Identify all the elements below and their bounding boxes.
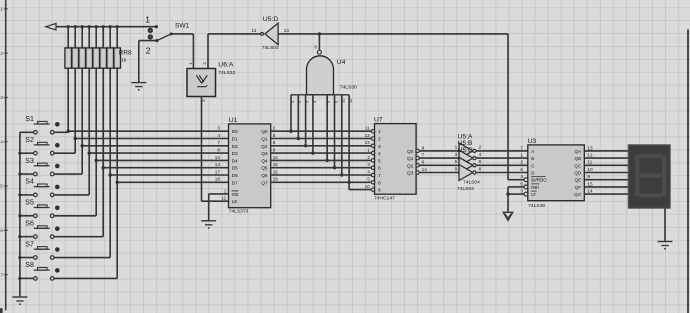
inverter U5 gate 4 [459,165,473,181]
input bubble LT U3 [524,192,528,196]
top bus wire [53,26,157,28]
node tap 3 [81,144,84,147]
node U4 output junction [318,32,321,35]
svg-text:12: 12 [273,155,279,160]
node rail junction S3 [18,172,21,175]
wire bus vertical 6 [102,27,104,237]
svg-text:1: 1 [367,148,370,153]
svg-text:9: 9 [273,148,276,153]
svg-text:U4: U4 [337,59,346,66]
switch S1 [20,121,68,134]
wire D5 to U1 [103,167,228,169]
overline BI/RBO [531,176,545,178]
svg-text:4: 4 [520,174,523,179]
svg-text:S6: S6 [25,220,34,227]
svg-text:4: 4 [479,152,482,157]
wire U1 Q5 to U7 [271,167,372,169]
wire U1 Q2 to U7 [271,145,372,147]
wire D1 to U1 [75,138,228,140]
svg-text:QA: QA [575,149,583,154]
svg-text:QC: QC [574,163,582,168]
wire bus vertical 1 [67,27,69,133]
svg-text:6: 6 [0,228,3,234]
wire D0 to U1 [68,130,228,132]
svg-text:12: 12 [348,98,353,103]
svg-text:19: 19 [273,177,279,182]
node tap 4 [88,151,91,154]
svg-text:5: 5 [455,159,458,164]
svg-text:18: 18 [215,177,221,182]
overline LT [531,190,536,192]
switch S6 [20,226,103,239]
switch S2 [20,142,75,155]
svg-text:Q4: Q4 [261,158,268,164]
overline RBI [531,183,539,185]
svg-text:Q1: Q1 [261,137,268,143]
svg-text:Q7: Q7 [261,180,268,186]
wire U5:D output to U6:A input [208,33,261,35]
wire U7 Q1 to inverter [419,157,459,159]
wire U3 QD to display [584,172,628,174]
svg-text:2: 2 [378,137,381,143]
svg-text:QB: QB [575,156,582,161]
node rail junction S5 [18,214,21,217]
wire U1 Q4 to U7 [271,159,372,161]
svg-text:13: 13 [215,155,221,160]
svg-text:2: 2 [367,155,370,160]
svg-text:Q3: Q3 [261,151,268,157]
svg-text:17: 17 [215,169,221,174]
svg-text:QF: QF [575,185,582,190]
svg-text:1: 1 [145,15,150,25]
node rail junction S6 [18,235,21,238]
svg-text:S8: S8 [25,262,34,269]
wire display common to ground [664,208,666,241]
svg-text:5: 5 [520,181,523,186]
svg-text:3: 3 [367,162,370,167]
wire U4 input 2 [297,95,299,139]
svg-text:7: 7 [0,272,3,278]
wire D2 to U1 [82,145,228,147]
svg-text:1k: 1k [121,57,127,63]
svg-text:6: 6 [422,160,425,165]
svg-text:74LS30: 74LS30 [340,84,357,90]
svg-text:S7: S7 [25,241,34,248]
wire D3 to U1 [89,152,228,154]
wire U4 input 5 [326,95,328,161]
svg-text:D4: D4 [232,158,238,164]
switch S8 [20,268,117,281]
ground symbol bottom-left [12,297,27,305]
node bus junction 7 [109,25,112,28]
svg-text:D3: D3 [232,151,238,157]
wire U4 input 3 [305,95,307,146]
svg-text:1: 1 [520,153,523,158]
node rail junction S2 [18,152,21,155]
wire U7 Q2 to inverter [419,164,459,166]
wire bus vertical 4 [88,27,90,195]
svg-text:U6:A: U6:A [218,61,234,68]
svg-text:12: 12 [365,133,371,138]
SW1 lever [157,34,171,41]
svg-text:D2: D2 [232,144,238,150]
node tap 8 [116,181,119,184]
input bubble 6 U7 [371,166,374,169]
wire RBI LT to ground terminal [508,186,524,188]
node bus junction 1 [67,25,70,28]
svg-text:74LS48: 74LS48 [528,203,545,209]
svg-text:2: 2 [0,51,3,57]
svg-text:14: 14 [215,162,221,167]
svg-text:11: 11 [221,196,226,201]
svg-text:7: 7 [422,153,425,158]
svg-text:B: B [531,156,534,161]
svg-text:2: 2 [479,145,482,150]
svg-text:74LS32: 74LS32 [218,70,235,76]
svg-text:8: 8 [479,166,482,171]
input bubble 4 U7 [371,151,374,154]
wire U1 Q7 to U7 [271,181,372,183]
U4 input rail [291,94,349,96]
wire U4 input 8 [348,95,350,183]
svg-text:Q5: Q5 [261,166,268,172]
svg-text:D6: D6 [232,173,238,179]
wire U4 input 7 [341,95,343,175]
svg-text:3: 3 [0,95,3,101]
wire D4 to U1 [96,159,228,161]
svg-text:U3: U3 [528,138,537,145]
wire junction to U4 bubble [318,34,320,50]
node tap 6 [102,166,105,169]
wire inverter 2 out to U3 [476,157,528,159]
svg-text:S5: S5 [25,200,34,207]
svg-text:14: 14 [422,167,428,172]
node tap 2 [74,137,77,140]
svg-text:74LS04: 74LS04 [463,180,480,186]
input bubble 3 U7 [371,144,374,147]
svg-text:9: 9 [455,166,458,171]
wire inverter 1 out to U3 [476,150,528,152]
wire D6 to U1 [110,174,228,176]
svg-text:3: 3 [520,189,523,194]
wire SW1 pole to U6:A input [171,33,193,35]
wire U1 Q6 to U7 [271,174,372,176]
svg-text:D0: D0 [232,129,238,135]
svg-text:12: 12 [587,153,593,158]
svg-text:6: 6 [273,140,276,145]
latch U1 74LS373 [229,124,271,208]
node tap 5 [95,159,98,162]
svg-text:6: 6 [479,159,482,164]
wire U1 OE to ground [209,193,229,195]
svg-text:2: 2 [520,160,523,165]
node U4 input junction 1 [289,130,292,133]
svg-text:14: 14 [587,189,593,194]
svg-text:13: 13 [587,145,593,150]
svg-text:D1: D1 [232,137,238,143]
inverter U5:D [265,23,278,45]
output bubble Q1 U7 [416,156,419,159]
input bubble 2 U7 [371,137,374,140]
svg-text:Q0: Q0 [261,129,268,135]
wire bus vertical 8 [116,27,118,279]
svg-text:U5:C: U5:C [458,147,473,154]
svg-text:9: 9 [422,145,425,150]
wire bus vertical 2 [74,27,76,153]
node RBI-LT junction [506,192,509,195]
node U4 input junction 8 [347,181,350,184]
node U4 input junction 7 [340,173,343,176]
ground rail left [19,132,21,296]
svg-text:2: 2 [273,126,276,131]
switch S4 [20,184,89,197]
svg-text:U5:D: U5:D [263,16,279,23]
wire D7 to U1 [117,181,228,183]
node bus junction 6 [102,25,105,28]
switch SW1 [148,25,158,40]
wire U1 Q3 to U7 [271,152,372,154]
svg-text:S3: S3 [25,158,34,165]
input bubble RBI U3 [524,185,528,189]
wire U4 input 1 [290,95,292,131]
svg-text:Q2: Q2 [261,144,268,150]
encoder U7 74HC147 [375,124,417,195]
input bubble BI/RBO U3 [524,178,528,182]
svg-text:4: 4 [367,169,370,174]
node rail junction S8 [18,277,21,280]
wire U3 QC to display [584,164,628,166]
svg-text:74LS04: 74LS04 [457,186,474,192]
svg-text:8: 8 [378,180,381,186]
output bubble Q0 U7 [416,149,419,152]
wire U1 Q0 to U7 [271,130,372,132]
svg-text:5: 5 [378,158,381,164]
output bubble Q2 U7 [416,164,419,167]
svg-text:U7: U7 [374,117,383,124]
svg-text:12: 12 [251,28,257,33]
svg-text:15: 15 [587,181,593,186]
sheet border right [687,30,689,313]
wire U6:A output to U1 LE [201,97,203,202]
svg-text:QG: QG [574,192,582,197]
svg-text:6: 6 [520,167,523,172]
svg-text:74LS04: 74LS04 [262,45,279,51]
wire U7 Q0 to inverter [419,150,459,152]
svg-text:S1: S1 [25,116,34,123]
svg-text:2: 2 [146,46,151,56]
svg-text:Q2: Q2 [407,163,414,169]
wire bus vertical 7 [109,27,111,258]
node bus junction 5 [95,25,98,28]
svg-text:BI/RBO: BI/RBO [531,178,547,183]
ground under SW1 [131,83,146,91]
svg-text:Q6: Q6 [261,173,268,179]
input bubble 7 U7 [371,173,374,176]
svg-text:6: 6 [378,166,381,172]
node rail junction S7 [18,256,21,259]
svg-text:74HC147: 74HC147 [374,195,395,201]
svg-text:Q1: Q1 [407,156,414,162]
switch S3 [20,163,82,176]
svg-text:7: 7 [520,145,523,150]
sheet corner mark bottom-left [0,308,3,313]
svg-text:9: 9 [378,188,381,194]
svg-text:3: 3 [217,126,220,131]
svg-text:3: 3 [378,144,381,150]
svg-text:1: 1 [378,129,381,135]
svg-text:OE: OE [232,192,239,198]
wire bus vertical 5 [95,27,97,216]
sheet border left [5,0,7,310]
ground terminal arrow [503,212,513,220]
node tap 7 [109,173,112,176]
inverter U5 gate 3 [459,157,473,173]
svg-text:RBI: RBI [531,185,539,190]
input bubble 9 U7 [371,188,374,191]
wire U7 Q3 to inverter [419,172,459,174]
svg-text:QD: QD [574,171,582,176]
svg-text:S4: S4 [25,179,34,186]
wire U4 input 6 [334,95,336,168]
node SW1 throw2 [155,39,158,42]
terminal arrow [46,24,56,30]
node U4 input junction 4 [311,151,314,154]
node U4 input junction 2 [297,137,300,140]
wire U4 output net [278,33,508,35]
inverter U5 gate 1 [459,143,473,159]
svg-text:4: 4 [378,151,381,157]
svg-text:LE: LE [232,199,238,205]
svg-text:10: 10 [365,184,371,189]
ruler tick digits [0,7,8,279]
ground under display [658,242,673,250]
nand U4 [307,56,334,95]
svg-text:13: 13 [365,140,371,145]
svg-text:15: 15 [273,162,279,167]
input bubble 1 U7 [371,130,374,133]
svg-text:S2: S2 [25,137,34,144]
svg-text:7: 7 [217,140,220,145]
wire inverter 4 out to U3 [476,172,528,174]
node SW1 pole [170,32,173,35]
wire U3 QB to display [584,157,628,159]
svg-text:74LS373: 74LS373 [229,209,249,215]
wire U3 QG to display [584,193,628,195]
node tap 1 [67,130,70,133]
svg-text:D7: D7 [232,180,238,186]
node bus junction 2 [74,25,77,28]
wire SW1 throw2 to ground [139,40,157,42]
wire U4 input 4 [312,95,314,153]
svg-text:5: 5 [0,184,3,190]
svg-text:1: 1 [0,7,3,13]
wire net down right side [507,34,509,180]
inverter U5 gate 2 [459,150,473,166]
svg-text:7: 7 [378,173,381,179]
node rail junction S4 [18,193,21,196]
node bus junction 4 [88,25,91,28]
wire inverter 3 out to U3 [476,164,528,166]
svg-text:D5: D5 [232,166,238,172]
switch S7 [20,247,110,260]
wire U3 QA to display [584,150,628,152]
svg-text:4: 4 [217,133,220,138]
wire row8 to U7 input 9 [348,182,350,189]
svg-text:9: 9 [587,174,590,179]
svg-text:4: 4 [0,139,3,145]
input bubble 8 U7 [371,181,374,184]
wire U3 QF to display [584,186,628,188]
wire bus vertical 3 [81,27,83,174]
ground under U1 [201,221,216,229]
svg-text:QE: QE [575,178,582,183]
node bus junction 3 [81,25,84,28]
switch S5 [20,205,96,218]
svg-text:13: 13 [284,28,290,33]
svg-text:Q3: Q3 [407,171,414,177]
or-gate U6:A [187,69,216,97]
input bubble 5 U7 [371,159,374,162]
svg-text:5: 5 [273,133,276,138]
svg-text:U1: U1 [229,117,238,124]
resistor pack RR8 [65,48,121,68]
svg-text:8: 8 [217,148,220,153]
decoder U3 74LS48 [528,145,585,201]
svg-text:SW1: SW1 [175,23,190,30]
node bus junction 8 [116,25,119,28]
wire U3 QE to display [584,179,628,181]
svg-text:16: 16 [273,169,279,174]
7-segment display [628,145,670,209]
node U4 input junction 5 [326,159,329,162]
svg-text:11: 11 [587,160,592,165]
svg-text:10: 10 [587,167,593,172]
svg-text:LT: LT [531,192,536,197]
svg-text:RR8: RR8 [119,49,132,56]
output bubble Q3 U7 [416,171,419,174]
svg-text:Q0: Q0 [407,149,414,155]
node U4 input junction 3 [304,144,307,147]
node U4 input junction 6 [333,166,336,169]
wire U1 Q1 to U7 [271,138,372,140]
svg-text:1: 1 [224,188,227,193]
svg-text:11: 11 [365,126,370,131]
svg-text:5: 5 [367,177,370,182]
